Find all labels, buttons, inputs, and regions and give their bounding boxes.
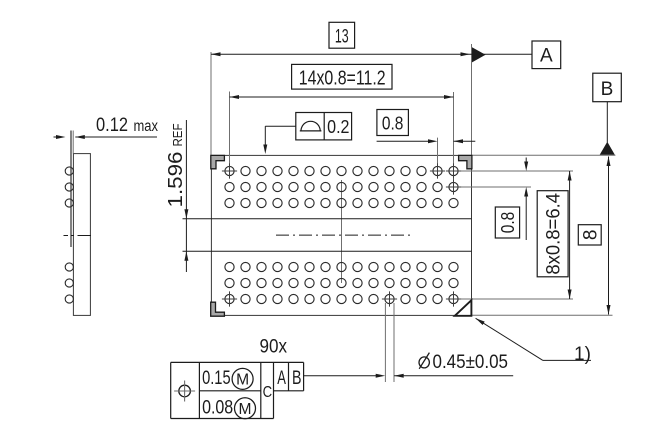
svg-text:C: C [263,384,273,401]
svg-text:A: A [540,46,553,67]
svg-text:0.45±0.05: 0.45±0.05 [433,352,509,373]
svg-text:B: B [292,368,302,389]
svg-text:max: max [134,118,159,135]
svg-text:0.08: 0.08 [202,398,233,419]
svg-text:0.8: 0.8 [497,212,518,234]
svg-text:A: A [277,368,286,389]
svg-text:13: 13 [335,26,349,48]
svg-text:M: M [236,372,249,389]
svg-text:8x0.8=6.4: 8x0.8=6.4 [544,193,565,275]
svg-text:0.12: 0.12 [96,115,128,136]
svg-text:90x: 90x [260,337,288,358]
svg-text:0.2: 0.2 [327,116,349,137]
svg-text:0.15: 0.15 [202,368,231,389]
svg-text:14x0.8=11.2: 14x0.8=11.2 [299,67,386,89]
svg-text:1): 1) [574,344,591,365]
svg-text:B: B [601,79,614,100]
svg-text:8: 8 [580,230,601,241]
svg-text:0.8: 0.8 [382,112,404,133]
svg-text:M: M [239,401,252,418]
